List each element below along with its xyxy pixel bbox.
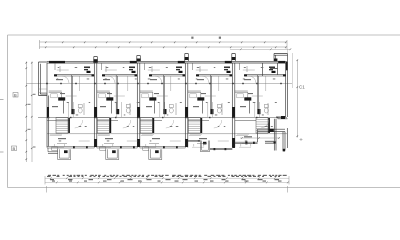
svg-text:C1: C1 [299,85,305,90]
svg-text:B: B [14,92,17,97]
svg-text:B: B [13,146,16,151]
